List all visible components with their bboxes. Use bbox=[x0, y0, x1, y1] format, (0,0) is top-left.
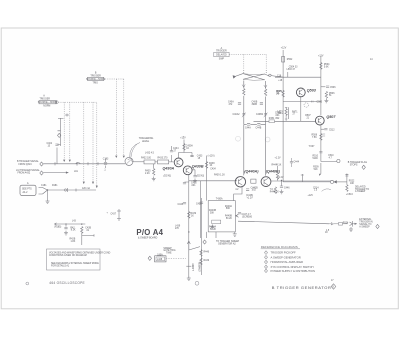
svg-text:A4-2: A4-2 bbox=[23, 191, 29, 194]
svg-text:(+12V): (+12V) bbox=[208, 156, 215, 158]
svg-text:SWP: SWP bbox=[219, 58, 225, 60]
svg-text:C437: C437 bbox=[111, 214, 117, 216]
svg-text:7.5K: 7.5K bbox=[312, 137, 317, 139]
svg-text:.001: .001 bbox=[275, 115, 280, 117]
svg-text:51K: 51K bbox=[314, 169, 319, 171]
svg-text:1: 1 bbox=[266, 252, 267, 254]
svg-text:.002: .002 bbox=[251, 190, 256, 192]
svg-text:390B: 390B bbox=[252, 104, 258, 106]
svg-text:TRIGGER: TRIGGER bbox=[90, 75, 101, 77]
svg-text:T430A: T430A bbox=[216, 198, 223, 201]
svg-text:Q503: Q503 bbox=[307, 89, 317, 93]
svg-text:B TRIGGER FLAG: B TRIGGER FLAG bbox=[348, 161, 367, 164]
svg-text:A SWEEP: A SWEEP bbox=[359, 225, 370, 228]
svg-text:B TRIGGER SIGNAL: B TRIGGER SIGNAL bbox=[17, 160, 39, 163]
svg-text:L503 47: L503 47 bbox=[287, 69, 296, 71]
svg-text:2.2K: 2.2K bbox=[145, 173, 150, 175]
svg-text:STOPS: STOPS bbox=[350, 164, 358, 166]
svg-text:XY6 CONTROL DISPLAY SWITCH: XY6 CONTROL DISPLAY SWITCH bbox=[271, 265, 314, 269]
svg-text:R439 1.2K: R439 1.2K bbox=[214, 175, 225, 177]
svg-text:464 OSCILLOSCOPE: 464 OSCILLOSCOPE bbox=[49, 281, 85, 285]
svg-text:L-R448: L-R448 bbox=[193, 263, 195, 271]
svg-text:.001: .001 bbox=[191, 185, 196, 187]
svg-text:CONDITIONS GIVEN ON DIAGRAM: CONDITIONS GIVEN ON DIAGRAM bbox=[49, 254, 87, 257]
svg-text:R502: R502 bbox=[287, 59, 293, 61]
svg-text:LEVEL: LEVEL bbox=[142, 141, 150, 143]
svg-text:& SWEEP BOARD: & SWEEP BOARD bbox=[138, 236, 158, 239]
svg-text:(R185): (R185) bbox=[54, 227, 61, 229]
svg-text:TIME: TIME bbox=[166, 252, 172, 254]
svg-text:510K: 510K bbox=[313, 158, 319, 160]
svg-text:(DC43): (DC43) bbox=[197, 174, 205, 177]
svg-text:TRIGGER PICKOFF: TRIGGER PICKOFF bbox=[271, 251, 297, 255]
svg-text:(DC43): (DC43) bbox=[164, 175, 172, 178]
svg-text:C444: C444 bbox=[294, 162, 300, 164]
svg-text:4: 4 bbox=[266, 266, 267, 268]
svg-text:10K: 10K bbox=[350, 183, 355, 185]
svg-text:C504 33: C504 33 bbox=[289, 67, 298, 69]
svg-text:GENERATOR A2: GENERATOR A2 bbox=[218, 243, 236, 246]
svg-text:R524: R524 bbox=[343, 223, 349, 225]
svg-text:DELAYED: DELAYED bbox=[216, 54, 227, 57]
svg-text:50.2K: 50.2K bbox=[210, 229, 216, 231]
svg-text:27K: 27K bbox=[175, 228, 180, 230]
svg-text:HORIZONTAL AMPLIFIER: HORIZONTAL AMPLIFIER bbox=[271, 260, 304, 264]
svg-text:(SCREW): (SCREW) bbox=[242, 216, 252, 218]
svg-text:C181: C181 bbox=[41, 185, 47, 187]
svg-text:+C516: +C516 bbox=[346, 194, 354, 196]
svg-text:L1U: L1U bbox=[74, 171, 79, 173]
svg-text:C40B2: C40B2 bbox=[256, 114, 264, 116]
svg-text:C434: C434 bbox=[210, 168, 216, 170]
svg-text:(Q440B): (Q440B) bbox=[266, 169, 281, 173]
svg-text:+12V: +12V bbox=[318, 56, 324, 58]
svg-text:+12V: +12V bbox=[308, 195, 314, 197]
svg-text:FOR DETAILS A1: FOR DETAILS A1 bbox=[51, 265, 70, 268]
svg-text:C40A2: C40A2 bbox=[233, 113, 241, 116]
svg-text:FROM Q324: FROM Q324 bbox=[19, 164, 33, 166]
svg-text:+1.2V: +1.2V bbox=[247, 197, 254, 199]
svg-text:R445 1K: R445 1K bbox=[270, 192, 279, 194]
svg-text:TRIG: TRIG bbox=[92, 83, 98, 85]
svg-text:8.2K: 8.2K bbox=[71, 230, 76, 232]
svg-text:180A: 180A bbox=[157, 253, 163, 256]
svg-text:SEE DIAGRAMS 2 INTERNAL SWEE: SEE DIAGRAMS 2 INTERNAL SWEEP MODE bbox=[51, 262, 99, 265]
svg-text:LIU TRIGGER SIGNAL: LIU TRIGGER SIGNAL bbox=[16, 169, 40, 172]
svg-text:(Q440A): (Q440A) bbox=[244, 169, 259, 173]
svg-text:A SWEEP: A SWEEP bbox=[355, 190, 366, 193]
svg-text:FROM A432: FROM A432 bbox=[18, 171, 31, 174]
svg-text:SOURCE—NORM: SOURCE—NORM bbox=[38, 102, 57, 104]
svg-text:B TRIGGER GENERATOR: B TRIGGER GENERATOR bbox=[272, 285, 332, 290]
svg-text:P/O A4: P/O A4 bbox=[136, 228, 163, 237]
svg-text:VOLTAGES AND WAVEFORMS OBTAINE: VOLTAGES AND WAVEFORMS OBTAINED UNDER CO… bbox=[49, 251, 111, 254]
svg-text:R433 270: R433 270 bbox=[158, 158, 169, 160]
svg-text:C438: C438 bbox=[178, 204, 184, 206]
svg-text:R451: R451 bbox=[269, 118, 275, 120]
svg-text:1.8K: 1.8K bbox=[71, 241, 76, 243]
svg-text:Q430A: Q430A bbox=[163, 167, 175, 171]
svg-text:R446: R446 bbox=[204, 252, 210, 254]
svg-text:C452: C452 bbox=[196, 204, 202, 206]
svg-text:R181: R181 bbox=[52, 185, 58, 187]
svg-text:50.2K: 50.2K bbox=[226, 218, 232, 220]
svg-text:+1.2V: +1.2V bbox=[275, 158, 282, 160]
svg-text:NORM: NORM bbox=[43, 106, 50, 108]
svg-text:C446: C446 bbox=[284, 188, 290, 190]
svg-text:L432 4.5: L432 4.5 bbox=[145, 153, 155, 155]
svg-text:C44A: C44A bbox=[245, 126, 251, 129]
svg-text:POWER SUPPLY & DISTRIBUTION: POWER SUPPLY & DISTRIBUTION bbox=[271, 269, 316, 273]
svg-text:50K: 50K bbox=[210, 213, 215, 215]
svg-text:TRIGGER: TRIGGER bbox=[39, 98, 50, 100]
svg-text:SEE PTS: SEE PTS bbox=[22, 189, 32, 191]
svg-text:A SWEEP GENERATOR: A SWEEP GENERATOR bbox=[271, 255, 301, 259]
svg-text:9.1K: 9.1K bbox=[277, 165, 282, 167]
svg-text:2: 2 bbox=[266, 257, 267, 259]
svg-text:C505: C505 bbox=[317, 102, 323, 104]
svg-text:120 mA: 120 mA bbox=[82, 187, 90, 190]
svg-text:1K: 1K bbox=[186, 148, 189, 150]
svg-text:50K: 50K bbox=[226, 208, 231, 210]
svg-text:5.6K: 5.6K bbox=[324, 66, 329, 68]
svg-text:SOURCE—NORM: SOURCE—NORM bbox=[86, 79, 105, 81]
svg-text:L448: L448 bbox=[157, 259, 163, 261]
svg-text:+12V: +12V bbox=[281, 48, 287, 50]
svg-text:5: 5 bbox=[266, 270, 267, 272]
svg-text:1K: 1K bbox=[191, 215, 194, 217]
svg-text:R432 100: R432 100 bbox=[141, 158, 152, 160]
svg-text:T-507: T-507 bbox=[309, 146, 316, 148]
svg-text:(SWEEP): (SWEEP) bbox=[200, 261, 202, 271]
svg-text:Q507: Q507 bbox=[326, 115, 336, 119]
svg-text:3: 3 bbox=[266, 262, 267, 264]
svg-text:R449: R449 bbox=[204, 260, 210, 262]
svg-text:C512: C512 bbox=[329, 129, 335, 131]
svg-text:C506: C506 bbox=[330, 87, 336, 89]
svg-text:C44B: C44B bbox=[256, 127, 262, 129]
svg-text:Q430B: Q430B bbox=[192, 165, 204, 169]
svg-text:C183: C183 bbox=[103, 158, 109, 160]
svg-text:1K: 1K bbox=[210, 165, 213, 167]
svg-text:REFERENCE DIAGRAMS: REFERENCE DIAGRAMS bbox=[261, 245, 298, 249]
